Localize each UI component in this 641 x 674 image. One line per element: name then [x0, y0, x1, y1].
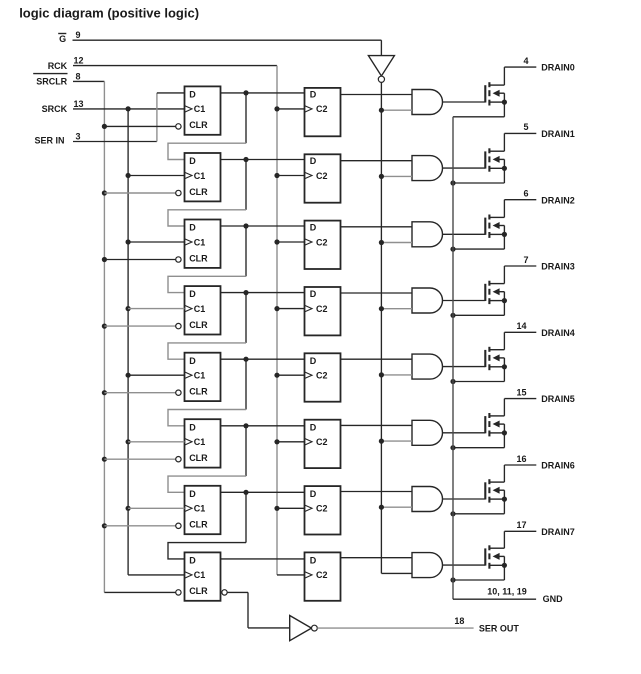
wire source Q3 to GND rail: [503, 234, 505, 249]
transistor Q7 power DMOS: [485, 479, 507, 502]
wire RCK branch to latch U1 C2: [274, 106, 279, 111]
svg-text:RCK: RCK: [48, 61, 68, 71]
transistor Q6 power DMOS: [485, 413, 507, 436]
svg-text:C1: C1: [194, 371, 206, 381]
wire latch U1 Q to and-gate A1: [341, 94, 412, 96]
svg-text:15: 15: [516, 387, 526, 397]
wire RCK horizontal: [73, 65, 277, 67]
svg-text:DRAIN5: DRAIN5: [541, 394, 575, 404]
node source rail junction 8: [450, 577, 455, 582]
node Q4 junction: [243, 357, 248, 362]
svg-text:DRAIN2: DRAIN2: [541, 195, 575, 205]
wire RCK branch to latch U6 C2: [274, 439, 279, 444]
wire SRCLR branch to FF6 CLR: [102, 457, 107, 462]
wire SRCLR horizontal: [73, 80, 104, 82]
wire drain Q6 to pin: [503, 399, 505, 416]
svg-text:D: D: [310, 356, 317, 366]
wire source Q8 to GND rail: [503, 565, 505, 580]
clear bubble FF3: [176, 257, 181, 262]
wire RCK branch to latch U3 C2: [274, 239, 279, 244]
svg-text:SER OUT: SER OUT: [479, 623, 520, 633]
clear bubble FF6: [176, 457, 181, 462]
svg-text:13: 13: [73, 99, 83, 109]
svg-text:SRCK: SRCK: [42, 104, 68, 114]
wire SRCLR branch to FF2 CLR: [102, 190, 107, 195]
svg-text:10, 11, 19: 10, 11, 19: [487, 586, 527, 596]
svg-text:DRAIN3: DRAIN3: [541, 262, 575, 272]
svg-text:D: D: [310, 289, 317, 299]
node source rail junction 3: [450, 247, 455, 252]
wire SRCK branch to FF1 C1: [126, 106, 131, 111]
wire SER IN to FF1 D: [73, 141, 157, 143]
transistor Q3 power DMOS: [485, 215, 507, 238]
wire latch U7 Q to and-gate A7: [341, 491, 412, 493]
clear bubble FF8: [176, 590, 181, 595]
svg-text:C1: C1: [194, 570, 206, 580]
node source rail junction 7: [450, 511, 455, 516]
svg-text:12: 12: [73, 56, 83, 66]
wire FF2 Q to latch U2 D: [221, 159, 305, 161]
svg-text:SER IN: SER IN: [34, 135, 64, 145]
svg-text:DRAIN1: DRAIN1: [541, 129, 575, 139]
and-gate A6: [412, 420, 442, 445]
svg-text:DRAIN7: DRAIN7: [541, 527, 575, 537]
transistor Q1 power DMOS: [485, 82, 507, 105]
wire Q6 to FF8 D: [245, 492, 247, 542]
wire and-gate A7 output to Q7 gate: [443, 498, 486, 500]
wire SRCLR branch to FF5 CLR: [102, 390, 107, 395]
wire SRCK to last FF clock: [128, 574, 184, 576]
wire source Q7 to GND rail: [503, 499, 505, 514]
transistor Q8 power DMOS: [485, 545, 507, 568]
wire G rail to and-gate A6: [381, 440, 412, 442]
wire G rail to and-gate A1: [381, 109, 412, 111]
svg-text:D: D: [310, 223, 317, 233]
wire and-gate A5 output to Q5 gate: [443, 366, 486, 368]
net GND rail vertical: [452, 117, 454, 599]
svg-text:CLR: CLR: [189, 453, 208, 463]
svg-text:logic diagram (positive logic): logic diagram (positive logic): [19, 6, 199, 21]
svg-text:C2: C2: [316, 304, 328, 314]
wire drain Q8 to pin: [503, 531, 505, 548]
wire drain Q1 to pin: [503, 67, 505, 85]
wire latch U4 Q to and-gate A4: [341, 292, 412, 294]
and-gate A7: [412, 487, 442, 512]
svg-text:D: D: [189, 556, 196, 566]
svg-text:D: D: [189, 489, 196, 499]
net RCK rail vertical: [276, 66, 278, 575]
wire SRCLR branch to FF4 CLR: [102, 324, 107, 329]
wire G rail to and-gate A5: [381, 374, 412, 376]
svg-text:C1: C1: [194, 304, 206, 314]
svg-text:CLR: CLR: [189, 520, 208, 530]
and-gate A1: [412, 90, 442, 115]
wire G rail to last and-gate: [381, 572, 412, 574]
D latch U8: [305, 552, 341, 600]
svg-text:DRAIN4: DRAIN4: [541, 328, 575, 338]
D latch U5: [305, 353, 341, 401]
svg-text:C1: C1: [194, 504, 206, 514]
node Q6 junction: [243, 490, 248, 495]
wire SRCK branch to FF7 C1: [126, 506, 131, 511]
D latch U2: [305, 154, 341, 202]
wire latch U5 Q to and-gate A5: [341, 358, 412, 360]
wire RCK branch to latch U4 C2: [274, 306, 279, 311]
wire SRCLR branch to FF3 CLR: [102, 257, 107, 262]
wire Q1 to FF3 D: [245, 160, 247, 210]
D flip-flop FF6: [185, 419, 221, 467]
svg-text:GND: GND: [543, 594, 564, 604]
wire and-gate A3 output to Q3 gate: [443, 233, 486, 235]
wire FF7 Q to latch U7 D: [221, 491, 305, 493]
and-gate A8: [412, 553, 442, 578]
D flip-flop FF5: [185, 353, 221, 401]
transistor Q5 power DMOS: [485, 347, 507, 370]
wire latch U3 Q to and-gate A3: [341, 226, 412, 228]
node Q0 junction: [243, 90, 248, 95]
D latch U1: [305, 88, 341, 136]
svg-text:C2: C2: [316, 437, 328, 447]
and-gate A2: [412, 156, 442, 181]
clear bubble FF7: [176, 523, 181, 528]
D flip-flop FF7: [185, 486, 221, 534]
net SRCK rail vertical: [127, 109, 129, 575]
D flip-flop FF3: [185, 220, 221, 268]
D latch U3: [305, 221, 341, 269]
wire SRCLR branch to FF7 CLR: [102, 523, 107, 528]
wire source Q5 to GND rail: [503, 367, 505, 382]
svg-text:5: 5: [523, 122, 528, 132]
wire and-gate A4 output to Q4 gate: [443, 300, 486, 302]
svg-text:C2: C2: [316, 371, 328, 381]
svg-text:C1: C1: [194, 437, 206, 447]
wire source Q2 to GND rail: [503, 168, 505, 183]
clear bubble FF2: [176, 190, 181, 195]
wire latch U2 Q to and-gate A2: [341, 160, 412, 162]
svg-text:CLR: CLR: [189, 187, 208, 197]
svg-text:CLR: CLR: [189, 120, 208, 130]
clear bubble FF4: [176, 323, 181, 328]
inverter U3 on G line: [368, 56, 394, 76]
wire G rail to and-gate A3: [381, 242, 412, 244]
svg-text:4: 4: [523, 56, 528, 66]
and-gate A4: [412, 288, 442, 313]
D flip-flop FF2: [185, 153, 221, 201]
svg-text:7: 7: [523, 255, 528, 265]
net G rail vertical: [380, 82, 382, 573]
wire and-gate A6 output to Q6 gate: [443, 432, 486, 434]
and-gate A3: [412, 222, 442, 247]
svg-text:SRCLR: SRCLR: [36, 77, 67, 87]
Q-bar bubble FF8 output: [222, 590, 227, 595]
node source rail junction 2: [450, 180, 455, 185]
svg-text:CLR: CLR: [189, 320, 208, 330]
wire latch U8 Q to and-gate A8: [341, 557, 412, 559]
svg-text:G: G: [59, 34, 66, 44]
wire drain Q2 to pin: [503, 133, 505, 151]
node Q1 junction: [243, 157, 248, 162]
wire G to inverter: [73, 39, 382, 41]
D flip-flop FF1: [185, 86, 221, 134]
wire SRCLR branch to FF1 CLR: [102, 124, 107, 129]
wire SRCK branch to FF5 C1: [126, 373, 131, 378]
wire G rail to and-gate A7: [381, 506, 412, 508]
node source rail junction 5: [450, 379, 455, 384]
wire RCK branch to latch U7 C2: [274, 506, 279, 511]
node source rail junction 4: [450, 313, 455, 318]
wire FF5 Q to latch U5 D: [221, 358, 305, 360]
svg-text:C1: C1: [194, 171, 206, 181]
wire drain Q5 to pin: [503, 332, 505, 349]
wire drain Q7 to pin: [503, 465, 505, 482]
D latch U4: [305, 287, 341, 335]
svg-text:3: 3: [75, 132, 80, 142]
node Q5 junction: [243, 423, 248, 428]
wire source Q1 to GND rail: [503, 102, 505, 117]
svg-text:DRAIN0: DRAIN0: [541, 63, 575, 73]
svg-text:D: D: [310, 556, 317, 566]
svg-text:C2: C2: [316, 237, 328, 247]
wire RCK to last latch: [277, 574, 305, 576]
wire RCK branch to latch U2 C2: [274, 173, 279, 178]
svg-text:6: 6: [523, 189, 528, 199]
svg-text:D: D: [310, 156, 317, 166]
svg-text:CLR: CLR: [189, 253, 208, 263]
wire G rail to and-gate A2: [381, 175, 412, 177]
net SRCLR rail vertical: [103, 81, 105, 592]
svg-text:C2: C2: [316, 570, 328, 580]
svg-text:CLR: CLR: [189, 586, 208, 596]
svg-text:9: 9: [75, 30, 80, 40]
node Q2 junction: [243, 223, 248, 228]
wire FF4 Q to latch U4 D: [221, 292, 305, 294]
svg-text:C1: C1: [194, 104, 206, 114]
svg-text:C1: C1: [194, 237, 206, 247]
wire Q4 to FF6 D: [245, 359, 247, 409]
and-gate A5: [412, 354, 442, 379]
wire SRCK branch to FF6 C1: [126, 439, 131, 444]
wire SRCK branch to FF3 C1: [126, 239, 131, 244]
svg-text:16: 16: [516, 454, 526, 464]
transistor Q2 power DMOS: [485, 148, 507, 171]
inverter U4 SER OUT buffer: [290, 616, 312, 641]
wire FF1 Q to latch U1 D: [221, 92, 305, 94]
transistor Q4 power DMOS: [485, 281, 507, 304]
wire source Q4 to GND rail: [503, 301, 505, 316]
svg-text:D: D: [189, 289, 196, 299]
wire G rail to and-gate A4: [381, 308, 412, 310]
svg-text:CLR: CLR: [189, 387, 208, 397]
svg-text:C2: C2: [316, 171, 328, 181]
svg-text:C2: C2: [316, 104, 328, 114]
wire SER OUT: [317, 627, 473, 629]
wire SRCK branch to FF2 C1: [126, 173, 131, 178]
wire GND pin line: [453, 598, 536, 600]
wire RCK branch to latch U5 C2: [274, 373, 279, 378]
svg-text:D: D: [189, 356, 196, 366]
svg-text:8: 8: [75, 71, 80, 81]
wire Q2 to FF4 D: [245, 226, 247, 276]
wire SRCLR branch to FF8 CLR: [104, 591, 175, 593]
wire FF8 Q to latch U8 D: [221, 558, 305, 560]
wire drain Q4 to pin: [503, 266, 505, 284]
wire Q3 to FF5 D: [245, 293, 247, 343]
wire drain Q3 to pin: [503, 200, 505, 218]
wire FF3 Q to latch U3 D: [221, 225, 305, 227]
clear bubble FF5: [176, 390, 181, 395]
wire source Q6 to GND rail: [503, 433, 505, 448]
svg-text:D: D: [189, 90, 196, 100]
wire SRCK branch to FF4 C1: [126, 306, 131, 311]
D flip-flop FF4: [185, 286, 221, 334]
svg-text:D: D: [310, 489, 317, 499]
wire Q0 to FF2 D: [245, 93, 247, 143]
svg-text:14: 14: [516, 321, 526, 331]
svg-text:D: D: [189, 422, 196, 432]
wire and-gate A2 output to Q2 gate: [443, 167, 486, 169]
wire FF8 Q-bar to inverter U4: [227, 591, 248, 593]
wire Q5 to FF7 D: [245, 426, 247, 476]
node source rail junction 6: [450, 445, 455, 450]
svg-text:D: D: [310, 422, 317, 432]
clear bubble FF1: [176, 124, 181, 129]
wire and-gate A1 output to Q1 gate: [443, 101, 486, 103]
wire SRCK horizontal into FF1 clock: [73, 108, 185, 110]
wire and-gate A8 output to Q8 gate: [443, 564, 486, 566]
svg-text:D: D: [189, 156, 196, 166]
svg-text:D: D: [189, 223, 196, 233]
svg-text:DRAIN6: DRAIN6: [541, 461, 575, 471]
svg-text:18: 18: [454, 616, 464, 626]
svg-text:C2: C2: [316, 504, 328, 514]
wire latch U6 Q to and-gate A6: [341, 424, 412, 426]
svg-text:D: D: [310, 90, 317, 100]
wire FF6 Q to latch U6 D: [221, 425, 305, 427]
node Q3 junction: [243, 290, 248, 295]
D flip-flop FF8: [185, 552, 221, 600]
svg-text:17: 17: [516, 520, 526, 530]
D latch U7: [305, 486, 341, 534]
D latch U6: [305, 420, 341, 468]
